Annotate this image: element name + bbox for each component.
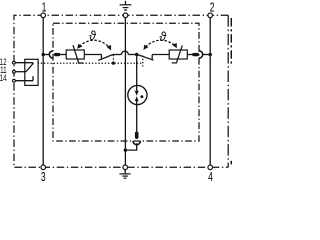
- varistor V2 body: [169, 50, 187, 59]
- terminal 4 circle: [208, 165, 213, 170]
- contact 14 tick: [32, 76, 34, 81]
- earth symbol top: [125, 1, 127, 5]
- outer enclosure border (dash-dot, top+left+bottom): [14, 15, 228, 167]
- wire right plug to node C: [203, 54, 211, 56]
- terminal 3 circle: [41, 165, 46, 170]
- terminal PE top circle: [123, 13, 128, 18]
- svg-text:1: 1: [42, 1, 47, 15]
- thermal disconnect F2 blade: [137, 55, 153, 61]
- plug-in connector left (pin capsule): [54, 53, 60, 56]
- spark gap electrode arrow top: [136, 86, 138, 92]
- svg-text:ϑ: ϑ: [89, 28, 97, 43]
- terminal PE bottom circle: [123, 165, 128, 170]
- outer enclosure border right side (dash-dot): [227, 15, 229, 167]
- thermal monitor arc over F1 (dashed with arrows): [79, 40, 109, 47]
- wire PE: center vertical earth line: [124, 18, 126, 165]
- svg-text:14: 14: [0, 73, 7, 84]
- spark gap F3 (gas discharge tube) circle: [128, 85, 147, 104]
- terminal 14 circle: [13, 79, 16, 82]
- remote signalling contact box: [25, 59, 38, 85]
- earth symbol bottom: [124, 170, 126, 174]
- wire spark gap down to bottom plug: [136, 105, 138, 132]
- terminal 12 wire: [15, 62, 33, 64]
- terminal 11 circle: [13, 70, 16, 73]
- thermal monitor arc over F2 (dashed with arrows): [145, 40, 176, 47]
- varistor V1 slash: [73, 45, 83, 63]
- wire node B down to spark gap: [136, 55, 138, 86]
- node D: junction dot on PE line: [124, 148, 128, 152]
- inner protection-module border (dash-dot): [53, 23, 199, 141]
- plug-in connector left (socket arc on module border): [49, 51, 53, 58]
- node E: dot on linkage line: [112, 62, 115, 65]
- wire blade to crossover: [113, 54, 122, 56]
- thermal disconnect F2 fixed contact tick: [151, 55, 153, 60]
- plug-in connector right (socket arc on module border): [199, 51, 203, 58]
- wire varistor V2 to right plug: [187, 54, 192, 56]
- plug-in connector bottom (pin capsule): [135, 132, 139, 140]
- plug-in connector bottom (socket arc on module border): [133, 141, 140, 145]
- thermal disconnect F1 fixed contact tick: [100, 55, 102, 60]
- wire N: right vertical line terminal 2 to terminal 4: [209, 18, 211, 165]
- wire L1: left vertical line terminal 1 to terminal 3: [42, 18, 44, 165]
- wire plug to varistor V1: [60, 54, 66, 56]
- wire from node A to left plug: [43, 54, 49, 56]
- spark gap electrode arrow bottom: [136, 100, 138, 104]
- svg-text:3: 3: [41, 170, 46, 184]
- varistor V2 slash: [172, 45, 183, 63]
- wire varistor V1 to thermal disconnect: [84, 54, 101, 56]
- terminal 11 wire: [15, 71, 26, 73]
- svg-text:4: 4: [208, 170, 213, 184]
- terminal 2 circle: [208, 13, 213, 18]
- mechanical linkage dotted drop from F2 blade: [142, 56, 144, 66]
- svg-text:ϑ: ϑ: [159, 30, 167, 45]
- wire crossover hump over PE line: [122, 51, 129, 54]
- cropped dash-dot line at right image edge (lower mark): [231, 161, 233, 165]
- svg-text:2: 2: [210, 1, 215, 15]
- terminal 12 circle: [13, 61, 16, 64]
- mechanical linkage dotted drop from F1 blade: [112, 56, 114, 64]
- terminal 1 circle: [41, 13, 46, 18]
- cropped dash-dot line at right image edge (upper segment): [231, 18, 233, 66]
- plug-in connector right (pin capsule): [192, 53, 199, 56]
- thermal disconnect F1 blade: [98, 55, 113, 61]
- changeover blade 11-12: [26, 63, 33, 72]
- varistor V1 body: [66, 50, 84, 59]
- node A: junction dot on left line: [41, 53, 45, 57]
- node B: center junction dot: [135, 53, 139, 57]
- wire hump to center node: [128, 54, 136, 56]
- contact 12 tick: [32, 63, 34, 65]
- wire tick to varistor V2: [152, 54, 169, 56]
- terminal 14 wire: [15, 80, 33, 82]
- spark gap trigger dot: [140, 95, 143, 98]
- wire bottom plug bends left to PE line: [125, 143, 136, 150]
- mechanical linkage dotted line horizontal: [38, 62, 143, 64]
- node C: junction dot on right line: [208, 53, 212, 57]
